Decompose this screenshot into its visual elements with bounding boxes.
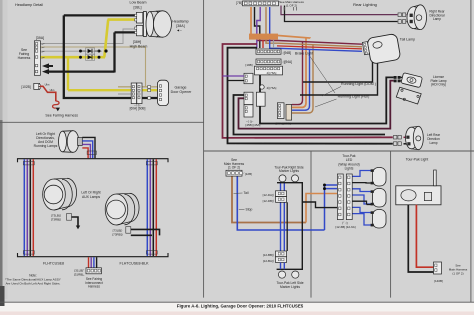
svg-text:Low Beam: Low Beam xyxy=(130,0,147,4)
svg-text:High Beam: High Beam xyxy=(130,44,148,48)
svg-text:FLHTCUSE8-BLK: FLHTCUSE8-BLK xyxy=(120,262,150,266)
svg-text:[73RB]⟩: [73RB]⟩ xyxy=(112,233,122,237)
svg-text:Lamp: Lamp xyxy=(433,17,441,21)
svg-text:[12-6B] [12-6A]: [12-6B] [12-6A] xyxy=(335,225,355,229)
svg-text:[73RB]⟩: [73RB]⟩ xyxy=(51,218,61,222)
svg-text:Lights: Lights xyxy=(345,167,354,171)
svg-text:Ukn: Ukn xyxy=(45,83,50,87)
svg-text:[102B]: [102B] xyxy=(21,85,30,89)
svg-text:Harness: Harness xyxy=(88,285,100,289)
svg-text:Running Lamps: Running Lamps xyxy=(34,144,58,148)
svg-text:⟨|[94A]: ⟨|[94A] xyxy=(283,60,293,64)
svg-text:[12-DA]⟩: [12-DA]⟩ xyxy=(263,193,274,197)
svg-text:Rear Lighting: Rear Lighting xyxy=(353,2,377,7)
svg-text:[12-BB]⟩: [12-BB]⟩ xyxy=(263,253,274,257)
svg-text:⌜[12B]: ⌜[12B] xyxy=(244,172,253,176)
svg-text:[140B]: [140B] xyxy=(434,279,443,283)
svg-text:[12-BA]⟩: [12-BA]⟩ xyxy=(263,259,274,263)
svg-text:(1 OF 2): (1 OF 2) xyxy=(286,4,297,8)
svg-text:[12-DB]⟩: [12-DB]⟩ xyxy=(263,199,274,203)
svg-text:4⟨[78A]: 4⟨[78A] xyxy=(267,71,277,75)
svg-text:Stop: Stop xyxy=(246,207,253,211)
svg-text:Marker Lights: Marker Lights xyxy=(280,285,300,289)
svg-text:[45B] [45A]: [45B] [45A] xyxy=(246,123,261,127)
svg-text:Tail Lamp: Tail Lamp xyxy=(400,38,415,42)
svg-text:Door Opener: Door Opener xyxy=(171,90,193,94)
svg-text:(1 OF 2): (1 OF 2) xyxy=(228,166,240,170)
svg-text:FLHTCUSE8: FLHTCUSE8 xyxy=(43,262,64,266)
svg-text:Harness: Harness xyxy=(18,56,31,60)
svg-text:AUX Lamps: AUX Lamps xyxy=(82,195,100,199)
svg-text:[39A]: [39A] xyxy=(36,36,44,40)
svg-text:Tail: Tail xyxy=(244,191,249,195)
svg-text:–⟨ ⟨|–: –⟨ ⟨|– xyxy=(134,103,141,107)
svg-text:◄–: ◄– xyxy=(176,29,182,33)
svg-text:[38A]: [38A] xyxy=(176,24,184,28)
svg-text:Tour-Pak Light: Tour-Pak Light xyxy=(406,158,429,162)
svg-text:Running Light (HDI): Running Light (HDI) xyxy=(338,95,370,99)
svg-text:(HDI Only): (HDI Only) xyxy=(431,83,446,87)
svg-text:[38L]: [38L] xyxy=(134,5,142,9)
svg-text:⟨[94B]: ⟨[94B] xyxy=(283,51,292,55)
svg-text:See Fairing Harness: See Fairing Harness xyxy=(45,113,78,117)
svg-text:Marker Lights: Marker Lights xyxy=(279,169,299,173)
svg-text:Running Light (DOM ): Running Light (DOM ) xyxy=(341,82,376,86)
svg-text:Brake Light: Brake Light xyxy=(295,52,313,56)
svg-text:[60A] [60B]: [60A] [60B] xyxy=(130,106,146,110)
svg-text:Lamp: Lamp xyxy=(430,141,438,145)
svg-text:Figure A-6. Lighting, Garage D: Figure A-6. Lighting, Garage Door Opener… xyxy=(177,304,304,309)
svg-text:[31RB]⌞: [31RB]⌞ xyxy=(74,272,85,276)
svg-text:[19B]: [19B] xyxy=(245,63,252,67)
svg-text:Headlamp Detail: Headlamp Detail xyxy=(15,3,43,7)
svg-text:[38H]: [38H] xyxy=(133,40,142,44)
svg-text:[7B]: [7B] xyxy=(236,1,242,5)
svg-text:Headlamp: Headlamp xyxy=(172,20,188,24)
svg-text:[53A] [53B]: [53A] [53B] xyxy=(276,121,291,125)
svg-text:Garage: Garage xyxy=(175,86,187,90)
svg-text:Are Used On Both Left And Righ: Are Used On Both Left And Right Sides. xyxy=(6,282,61,286)
svg-text:4⟨[76A]: 4⟨[76A] xyxy=(267,86,277,90)
svg-text:(1 OF 2): (1 OF 2) xyxy=(452,271,463,275)
